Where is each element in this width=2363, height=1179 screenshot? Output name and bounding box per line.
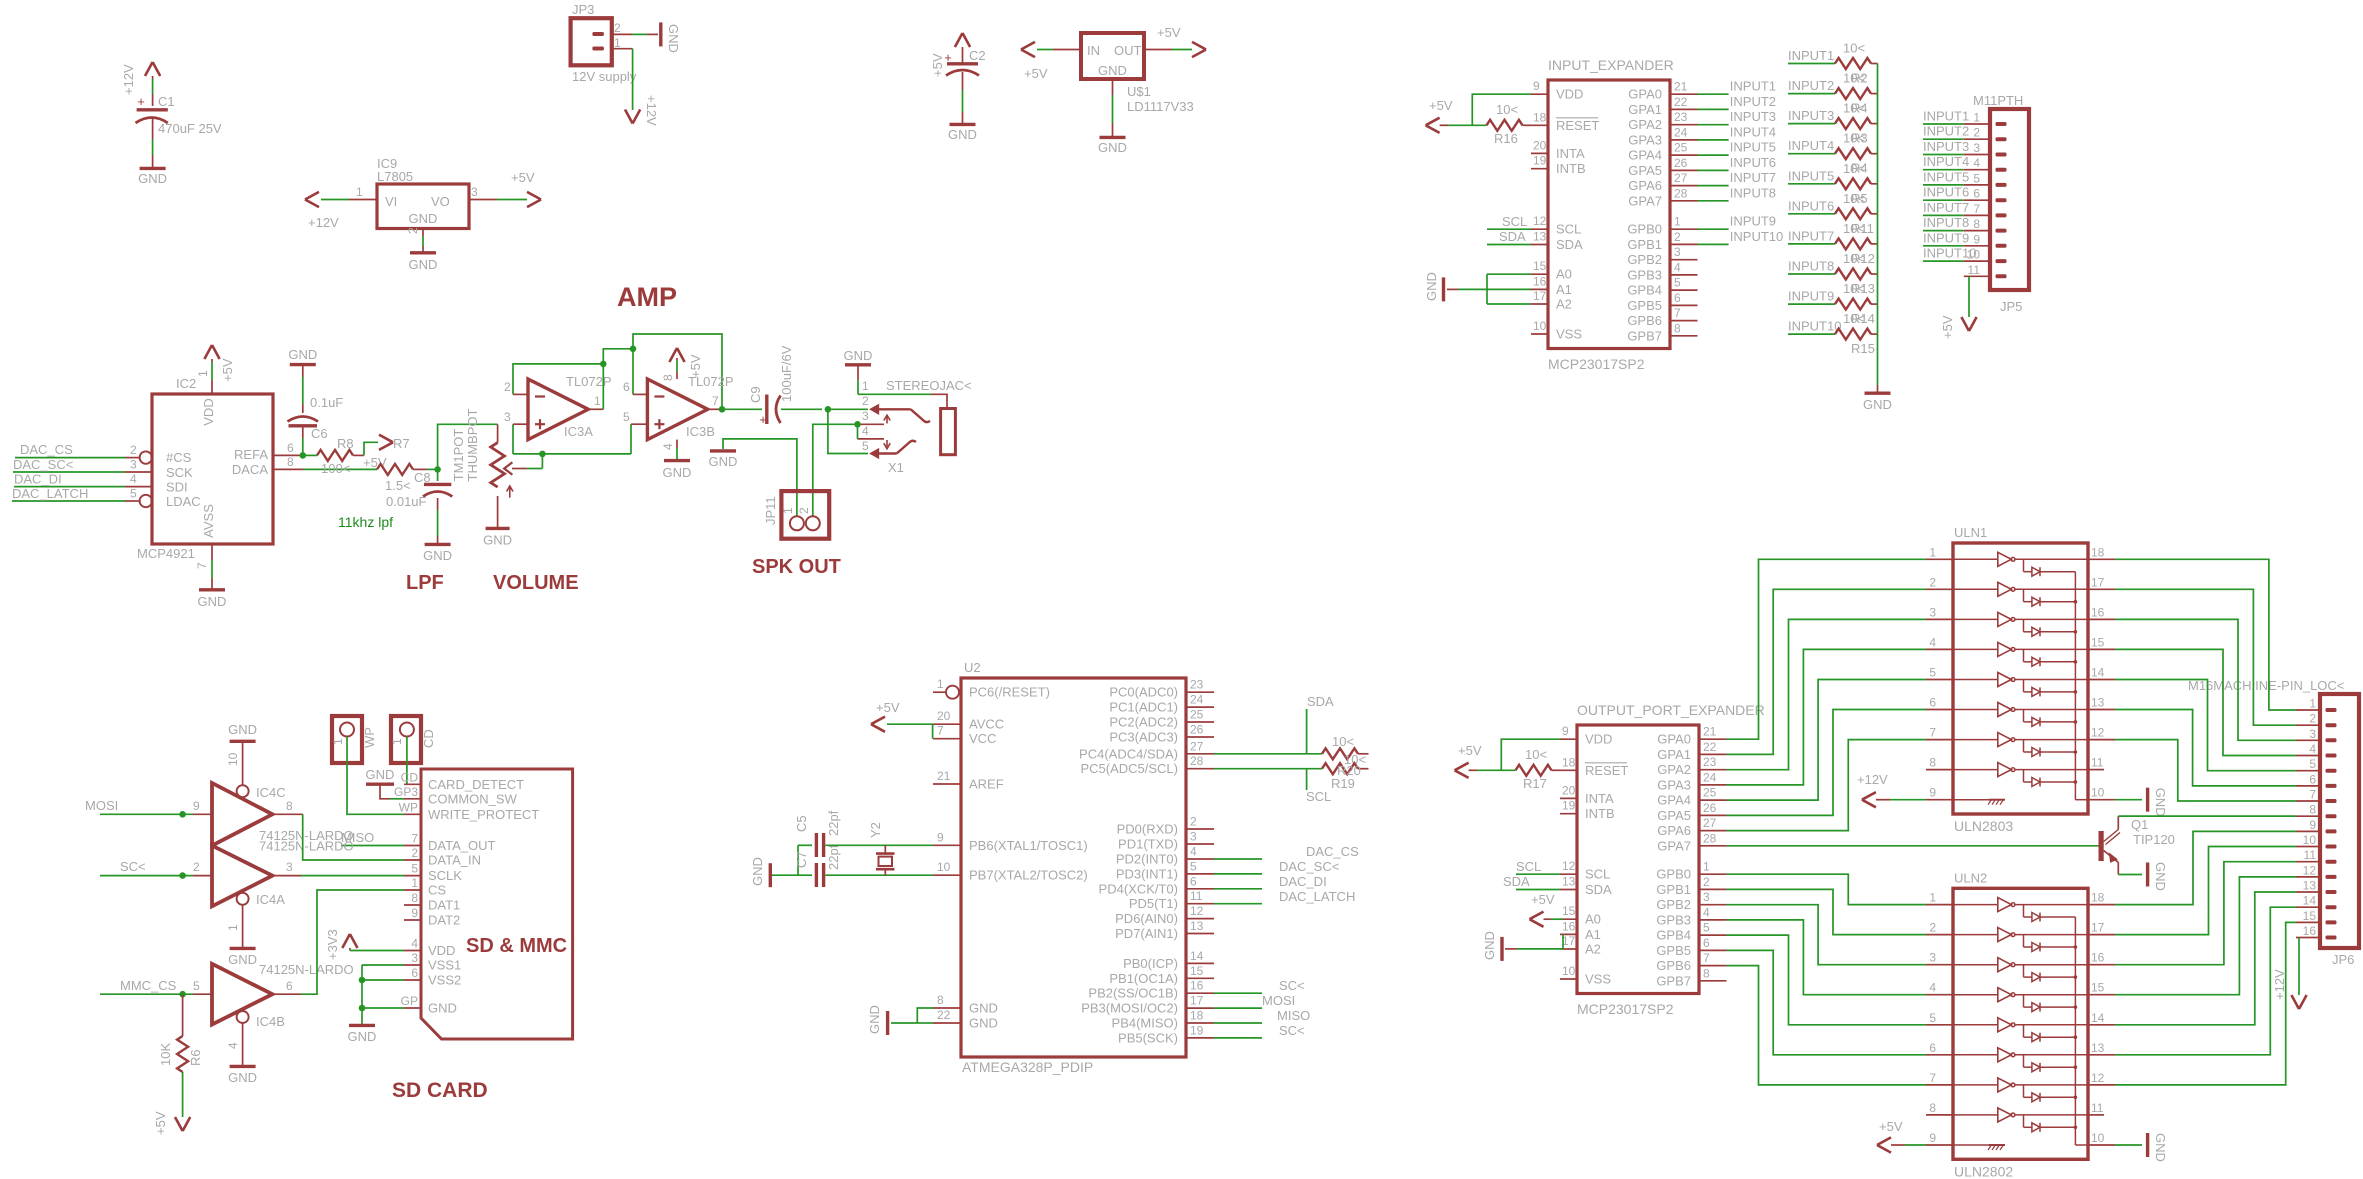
svg-text:PD7(AIN1): PD7(AIN1) [1115, 926, 1178, 941]
ULN1 channel 6 clamp diode [2023, 710, 2025, 722]
svg-text:+12V: +12V [644, 95, 659, 126]
OUTPUT_PORT_EXPANDER pin 8 GPB7 [1699, 980, 1727, 982]
svg-text:13: 13 [2091, 696, 2105, 710]
U2 pin 18 PB4(MISO) [1186, 1022, 1214, 1024]
svg-text:GND: GND [666, 24, 681, 53]
pin 5 LDAC with bubble, net DAC_LATCH [140, 495, 152, 507]
U2 pin 5 PD3(INT1) [1186, 873, 1214, 875]
ULN2 channel 7 clamp diode [2023, 1085, 2025, 1097]
svg-text:17: 17 [1562, 934, 1576, 948]
svg-text:6: 6 [1674, 291, 1681, 305]
pin 1 output [588, 408, 603, 410]
ULN2 diode common rail to pin 10 [2074, 917, 2076, 1145]
svg-text:4: 4 [2309, 742, 2316, 756]
svg-text:6: 6 [1973, 187, 1980, 201]
OUTPUT_PORT_EXPANDER pin 3 GPB2 [1699, 904, 1727, 906]
svg-text:8: 8 [937, 993, 944, 1007]
wire GPA2 to ULN1 input 3 [1727, 619, 1927, 769]
svg-text:R17: R17 [1523, 776, 1547, 791]
svg-text:SC<: SC< [1279, 1023, 1305, 1038]
wire GPA0 to ULN1 input 1 [1727, 559, 1927, 739]
U2 pin 25 PC2(ADC2) [1186, 721, 1214, 723]
wire JP3 pin2 to GND [612, 33, 632, 35]
svg-text:U2: U2 [964, 660, 981, 675]
svg-text:INTA: INTA [1585, 791, 1614, 806]
JP6 pin 12 [2296, 876, 2320, 878]
svg-text:13: 13 [1533, 230, 1547, 244]
ground GND (input expander A pins) [1442, 277, 1445, 301]
ground GND (IC4C enable) [230, 740, 256, 743]
svg-text:INPUT6: INPUT6 [1730, 155, 1776, 170]
buffer IC4A 74125 [212, 846, 272, 907]
U2 pin 3 PD1(TXD) [1186, 843, 1214, 845]
INPUT_EXPANDER pin 1 GPB0 [1670, 228, 1698, 230]
wire caps to XTAL pins [826, 844, 934, 846]
svg-text:3: 3 [1929, 951, 1936, 965]
JP6 pin 15 [2296, 921, 2320, 923]
svg-text:SCL: SCL [1306, 789, 1331, 804]
svg-text:DAC_DI: DAC_DI [14, 472, 62, 487]
svg-text:11: 11 [1968, 263, 1981, 277]
svg-text:GPA6: GPA6 [1657, 823, 1691, 838]
jack pin 3 with switch arrow [858, 423, 885, 425]
U2 pin 8 GND [933, 1007, 961, 1009]
svg-text:7: 7 [1703, 951, 1710, 965]
svg-text:PB4(MISO): PB4(MISO) [1112, 1016, 1178, 1031]
ground GND (socket) [349, 1024, 375, 1027]
ground GND (IC2) [199, 588, 225, 591]
svg-text:0.1uF: 0.1uF [310, 395, 343, 410]
svg-text:2: 2 [797, 507, 811, 514]
svg-text:2: 2 [406, 227, 420, 234]
OUTPUT_PORT_EXPANDER pin 27 GPA6 [1699, 830, 1727, 832]
svg-text:5: 5 [193, 979, 200, 993]
svg-text:2: 2 [2309, 712, 2316, 726]
svg-text:ULN2802: ULN2802 [1954, 1163, 2013, 1179]
svg-text:2: 2 [1703, 875, 1710, 889]
svg-text:3: 3 [411, 951, 418, 965]
INPUT_EXPANDER pin 17 A2 [1531, 303, 1548, 305]
svg-text:GND: GND [663, 465, 692, 480]
svg-text:6: 6 [623, 380, 630, 394]
wire ULN1 output 18 to JP6 pin 1 [2088, 558, 2115, 560]
svg-text:8: 8 [2309, 803, 2316, 817]
svg-text:DAC_CS: DAC_CS [20, 442, 73, 457]
svg-text:3: 3 [2309, 727, 2316, 741]
JP5 pin 11 to +5V [1964, 275, 1990, 277]
svg-text:16: 16 [1562, 919, 1576, 933]
net INPUT2 from GPA1 [1698, 108, 1729, 110]
ULN2 channel 7 input pin 7 [1926, 1084, 1953, 1086]
pin 5 non-inverting input [631, 423, 647, 425]
ground GND (C8) [425, 543, 451, 546]
svg-text:+12V: +12V [308, 215, 339, 230]
power flag +5V (U$1 input) [1021, 42, 1035, 57]
svg-text:GND: GND [969, 1016, 998, 1031]
INPUT_EXPANDER pin 7 GPB6 [1670, 320, 1698, 322]
socket pin 5 (SCLK) [404, 875, 421, 877]
JP6 pin 1 [2296, 709, 2320, 711]
socket pin CD (CARD_DETECT) [404, 783, 421, 785]
OUTPUT_PORT_EXPANDER pin 17 A2 [1560, 948, 1577, 950]
JP6 pin 14 [2296, 906, 2320, 908]
wire Q1 collector to JP6 pin 8 [2118, 815, 2296, 817]
svg-text:SCL: SCL [1556, 222, 1581, 237]
jack pin 2 tip contact [871, 405, 879, 414]
svg-text:R16: R16 [1494, 131, 1518, 146]
wire GPA4 to ULN1 input 5 [1727, 680, 1927, 801]
svg-text:GND: GND [2153, 862, 2168, 891]
svg-text:10: 10 [2303, 833, 2317, 847]
OUTPUT_PORT_EXPANDER pin 6 GPB5 [1699, 949, 1727, 951]
svg-text:M11PTH: M11PTH [1973, 93, 2023, 108]
svg-text:10: 10 [1533, 319, 1547, 333]
net SCK to IC4A input pin 2 [193, 875, 212, 877]
wire JP3 pin1 to +12V [612, 48, 633, 50]
svg-text:12: 12 [2091, 1071, 2105, 1085]
INPUT_EXPANDER pin 4 GPB3 [1670, 274, 1698, 276]
svg-text:GND: GND [1863, 397, 1892, 412]
svg-text:2: 2 [1190, 815, 1197, 829]
power flag +5V (R8) [379, 435, 393, 450]
svg-text:X1: X1 [888, 460, 904, 475]
svg-text:5: 5 [1929, 666, 1936, 680]
transistor Q1 TIP120 [2099, 831, 2104, 861]
wire IC4C enable to GND [242, 762, 244, 786]
OUTPUT_PORT_EXPANDER pin 26 GPA5 [1699, 814, 1727, 816]
svg-text:2: 2 [504, 380, 511, 394]
svg-text:10: 10 [1967, 248, 1981, 262]
svg-text:9: 9 [1533, 79, 1540, 93]
svg-text:15: 15 [2303, 909, 2317, 923]
svg-text:INPUT5: INPUT5 [1730, 140, 1776, 155]
svg-text:GPB3: GPB3 [1627, 267, 1662, 282]
junction node REFA/C6/R8 [300, 452, 307, 459]
svg-text:6: 6 [2309, 772, 2316, 786]
svg-text:1: 1 [862, 379, 869, 393]
U2 pin 17 PB3(MOSI/OC2) [1186, 1007, 1214, 1009]
svg-text:22: 22 [937, 1008, 951, 1022]
INPUT_EXPANDER pin 15 A0 [1531, 273, 1548, 275]
svg-text:AREF: AREF [969, 777, 1004, 792]
U2 pin 4 PD2(INT0) [1186, 858, 1214, 860]
capacitor C7 22pf [815, 863, 818, 887]
ground GND (IC3B) [664, 459, 690, 462]
svg-text:INPUT4: INPUT4 [1730, 124, 1776, 139]
svg-text:AVSS: AVSS [201, 504, 216, 538]
svg-text:INPUT3: INPUT3 [1730, 109, 1776, 124]
svg-text:100uF/6V: 100uF/6V [779, 345, 794, 402]
svg-text:TIP120: TIP120 [2133, 832, 2175, 847]
svg-text:5: 5 [1190, 859, 1197, 873]
svg-text:INPUT1: INPUT1 [1923, 109, 1969, 124]
power flag +3V3 (socket VDD) [342, 934, 357, 948]
ground GND (pot) [486, 527, 510, 530]
pin 6 REFA stub [273, 454, 303, 456]
svg-text:12: 12 [1190, 904, 1204, 918]
socket pin 6 (VSS2) [404, 979, 421, 981]
svg-text:C5: C5 [794, 815, 809, 832]
svg-text:INTB: INTB [1556, 161, 1586, 176]
wire A1 A2 to GND (output expander) [1517, 948, 1563, 950]
ULN2 channel 4 clamp diode [2023, 995, 2025, 1007]
ULN2 channel 5 input pin 5 [1926, 1024, 1953, 1026]
JP6 pin 7 [2296, 800, 2320, 802]
power flag +12V (IC9 input) [305, 192, 319, 207]
svg-text:+5V: +5V [688, 354, 703, 378]
svg-text:GPB5: GPB5 [1627, 298, 1662, 313]
OUTPUT_PORT_EXPANDER pin 19 INTB [1560, 813, 1577, 815]
pin 3 non-inverting input [513, 423, 528, 425]
svg-text:10<: 10< [1843, 221, 1865, 236]
svg-text:5: 5 [1703, 921, 1710, 935]
U2 pin 2 PD0(RXD) [1186, 828, 1214, 830]
svg-text:4: 4 [1929, 981, 1936, 995]
svg-text:14: 14 [2303, 894, 2317, 908]
svg-text:IC3A: IC3A [564, 424, 593, 439]
svg-text:3: 3 [1973, 141, 1980, 155]
svg-text:12: 12 [1533, 214, 1547, 228]
socket pin 9 (DAT2) [404, 919, 421, 921]
svg-text:GND: GND [366, 767, 395, 782]
pin 2 #CS with bubble, net DAC_CS [140, 451, 152, 463]
svg-text:GP3: GP3 [394, 785, 418, 799]
INPUT_EXPANDER pin 5 GPB4 [1670, 289, 1698, 291]
svg-text:25: 25 [1703, 786, 1717, 800]
svg-text:9: 9 [2309, 818, 2316, 832]
svg-text:21: 21 [937, 769, 951, 783]
svg-text:14: 14 [2091, 1011, 2105, 1025]
OUTPUT_PORT_EXPANDER pin 5 GPB4 [1699, 934, 1727, 936]
ULN2 channel 3 clamp diode [2023, 965, 2025, 977]
svg-text:RESET: RESET [1585, 763, 1628, 778]
svg-text:15: 15 [1562, 904, 1576, 918]
svg-text:25: 25 [1674, 141, 1688, 155]
svg-text:11: 11 [2304, 848, 2317, 862]
wire IC2 AVSS pin7 to GND [211, 544, 213, 560]
ULN1 channel 2 input pin 2 [1926, 588, 1953, 590]
svg-text:1: 1 [411, 876, 418, 890]
svg-text:RESET: RESET [1556, 118, 1599, 133]
svg-text:VSS: VSS [1585, 972, 1611, 987]
svg-text:SPK OUT: SPK OUT [752, 556, 841, 578]
ground GND (IC9) [410, 251, 436, 254]
svg-text:4: 4 [661, 443, 675, 450]
svg-text:OUT: OUT [1114, 43, 1142, 58]
connector JP11 SPK OUT [781, 491, 829, 539]
svg-text:DAC_LATCH: DAC_LATCH [12, 486, 88, 501]
svg-text:7: 7 [195, 562, 209, 569]
socket pin WP (WRITE_PROTECT) [404, 813, 421, 815]
ground GND (output expander A pins) [1500, 937, 1503, 961]
buffer IC4B 74125 [212, 964, 272, 1025]
net SDA to output expander [1516, 889, 1560, 891]
power flag +5V (ULN2 pin 9) [1877, 1137, 1891, 1152]
ULN1 channel 3 input pin 3 [1926, 618, 1953, 620]
svg-text:IC4A: IC4A [256, 892, 285, 907]
wire IC4B enable to GND [242, 1023, 244, 1066]
ULN1 channel 6 input pin 6 [1926, 709, 1953, 711]
wire ULN1 output 17 to JP6 pin 2 [2088, 588, 2115, 590]
svg-text:C6: C6 [311, 426, 328, 441]
svg-text:INPUT6: INPUT6 [1923, 185, 1969, 200]
svg-text:1: 1 [356, 185, 363, 199]
pin 8 V+ to +5V [676, 372, 678, 379]
wire U2 GND pins to GND [891, 1022, 917, 1024]
ULN1 channel 8 clamp diode [2023, 770, 2025, 782]
svg-text:26: 26 [1190, 723, 1204, 737]
svg-text:17: 17 [1190, 994, 1204, 1008]
svg-text:DAC_CS: DAC_CS [1306, 844, 1359, 859]
svg-text:2: 2 [1674, 230, 1681, 244]
svg-text:IC4B: IC4B [256, 1014, 285, 1029]
svg-text:1: 1 [781, 507, 795, 514]
svg-text:74125N-LARDO: 74125N-LARDO [259, 839, 354, 854]
svg-text:SC<: SC< [120, 859, 146, 874]
svg-text:4: 4 [130, 472, 137, 486]
ULN2 pin 11 stub [2088, 1114, 2104, 1116]
svg-text:INPUT6: INPUT6 [1788, 198, 1834, 213]
wire ULN1 output 15 to JP6 pin 4 [2088, 648, 2115, 650]
svg-text:2: 2 [130, 443, 137, 457]
OUTPUT_PORT_EXPANDER pin 12 SCL [1560, 873, 1577, 875]
ground GND (JP11) [710, 449, 736, 452]
svg-text:+12V: +12V [2272, 969, 2287, 1000]
svg-text:R19: R19 [1331, 776, 1355, 791]
svg-text:PD5(T1): PD5(T1) [1129, 896, 1178, 911]
U2 pin 23 PC0(ADC0) [1186, 691, 1214, 693]
power flag +5V (U$1 output) [1192, 42, 1206, 57]
wire U2 pin27 to R19 [1214, 753, 1322, 755]
INPUT_EXPANDER pin 8 GPB7 [1670, 335, 1698, 337]
svg-text:9: 9 [1929, 1131, 1936, 1145]
socket pin 3 (VSS1) [404, 964, 421, 966]
wire A0 A1 A2 to GND (input expander) [1487, 273, 1531, 275]
svg-text:15: 15 [2091, 635, 2105, 649]
svg-text:VSS: VSS [1556, 327, 1582, 342]
OUTPUT_PORT_EXPANDER pin 20 INTA [1560, 797, 1577, 799]
svg-text:GND: GND [423, 548, 452, 563]
wire GPB5 to ULN2 input 6 [1727, 950, 1927, 1054]
wire JP11 pin1 to GND [723, 439, 797, 516]
capacitor C6 0.1uF [288, 417, 319, 422]
power flag +5V (input expander) [1426, 118, 1440, 133]
ULN1 pin 11 stub [2088, 769, 2104, 771]
svg-text:PC0(ADC0): PC0(ADC0) [1109, 685, 1178, 700]
wire pot wiper to op-amp inputs [527, 468, 543, 470]
ULN1 pin 9 GND [1926, 799, 1953, 801]
svg-text:SDA: SDA [1503, 874, 1530, 889]
svg-text:1: 1 [937, 677, 944, 691]
svg-text:GPB7: GPB7 [1627, 328, 1662, 343]
wire R8 to +5V [364, 442, 378, 455]
U2 pin 7 VCC [933, 738, 961, 740]
ULN2 channel 8 clamp diode [2023, 1115, 2025, 1127]
svg-text:ATMEGA328P_PDIP: ATMEGA328P_PDIP [962, 1059, 1093, 1075]
power flag +12V (C1 top) [145, 62, 160, 76]
net INPUT10 from GPB1 [1698, 243, 1729, 245]
svg-text:PD4(XCK/T0): PD4(XCK/T0) [1099, 881, 1178, 896]
svg-text:+5V: +5V [1429, 98, 1453, 113]
svg-text:5: 5 [1674, 276, 1681, 290]
svg-text:1: 1 [390, 738, 404, 745]
wire ULN2 output 18 to JP6 pin 9 [2088, 904, 2115, 906]
wire U2 AVCC/VCC to +5V [887, 723, 933, 725]
wire IC4C output pin 8 to DATA_IN [272, 813, 302, 815]
svg-text:GPA2: GPA2 [1628, 117, 1662, 132]
ground GND (Q1) [2146, 863, 2149, 887]
svg-text:7: 7 [411, 832, 418, 846]
svg-text:GPB0: GPB0 [1627, 222, 1662, 237]
wire JP11 pin2 to jack pin3/pin4 [813, 424, 855, 516]
voltage regulator U$1 LD1117V33 [1081, 33, 1144, 79]
net SDA vertical [1306, 709, 1308, 754]
wire IC9 VI to +12V [349, 199, 377, 201]
svg-text:10: 10 [2091, 786, 2105, 800]
svg-text:L7805: L7805 [377, 169, 413, 184]
svg-text:+5V: +5V [876, 700, 900, 715]
svg-text:DAT1: DAT1 [428, 898, 460, 913]
power flag +5V (IC9 output) [527, 192, 541, 207]
svg-text:GND: GND [138, 171, 167, 186]
svg-text:27: 27 [1703, 816, 1717, 830]
svg-text:8: 8 [1674, 321, 1681, 335]
resistor R6 10K pulldown [182, 994, 184, 1036]
wire crystal gnd to caps [772, 874, 798, 876]
svg-text:7: 7 [937, 724, 944, 738]
svg-text:26: 26 [1703, 801, 1717, 815]
svg-text:9: 9 [193, 799, 200, 813]
svg-text:INPUT3: INPUT3 [1923, 139, 1969, 154]
U2 pin 27 PC4(ADC4/SDA) [1186, 753, 1214, 755]
svg-text:10<: 10< [1843, 161, 1865, 176]
net DAC_SCK from U2 [1214, 873, 1262, 875]
wire U$1 IN to +5V [1053, 49, 1081, 51]
svg-text:10<: 10< [1843, 281, 1865, 296]
svg-text:INPUT5: INPUT5 [1788, 168, 1834, 183]
svg-text:INPUT9: INPUT9 [1730, 214, 1776, 229]
svg-text:SDA: SDA [1307, 694, 1334, 709]
svg-text:22pf: 22pf [826, 844, 841, 870]
wire ULN2 output 14 to JP6 pin 13 [2088, 1024, 2115, 1026]
svg-text:MCP23017SP2: MCP23017SP2 [1577, 1001, 1674, 1017]
svg-text:COMMON_SW: COMMON_SW [428, 791, 518, 806]
wire ULN1 output 13 to JP6 pin 6 [2088, 709, 2115, 711]
svg-text:18: 18 [1533, 110, 1547, 124]
svg-text:10: 10 [937, 860, 951, 874]
INPUT_EXPANDER pin 18 RESET [1531, 124, 1548, 126]
svg-text:11khz lpf: 11khz lpf [338, 514, 393, 530]
power flag +5V (R6) [175, 1117, 190, 1131]
svg-text:22: 22 [1703, 740, 1717, 754]
svg-text:PB7(XTAL2/TOSC2): PB7(XTAL2/TOSC2) [969, 868, 1088, 883]
svg-text:PD1(TXD): PD1(TXD) [1118, 837, 1178, 852]
ground GND (IC4A enable) [230, 947, 256, 950]
svg-text:6: 6 [1703, 936, 1710, 950]
pin 4 SDI, net DAC_DI [125, 486, 152, 488]
svg-text:A0: A0 [1585, 912, 1601, 927]
svg-text:INPUT8: INPUT8 [1788, 259, 1834, 274]
svg-text:20: 20 [1533, 138, 1547, 152]
svg-text:2: 2 [862, 394, 869, 408]
svg-text:8: 8 [1973, 217, 1980, 231]
wire ULN2 output 17 to JP6 pin 10 [2088, 934, 2115, 936]
svg-text:GPB6: GPB6 [1627, 313, 1662, 328]
wire GPB3 to ULN2 input 4 [1727, 920, 1927, 995]
INPUT_EXPANDER pin 16 A1 [1531, 288, 1548, 290]
svg-text:9: 9 [1929, 786, 1936, 800]
net INPUT4 from GPA3 [1698, 139, 1729, 141]
